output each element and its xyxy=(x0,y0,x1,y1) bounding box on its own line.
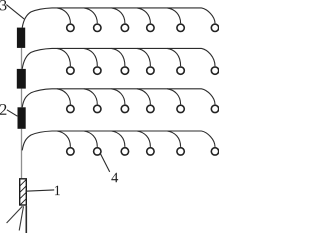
lamp bulb row3-4 xyxy=(147,105,154,112)
lamp bulb row3-2 xyxy=(94,105,101,112)
lamp bulb row1-5 xyxy=(177,24,184,31)
socket block (bottom, pointed to by label 2) xyxy=(18,107,26,129)
lamp bulb row1-3 xyxy=(121,24,128,31)
plug hatch stroke a xyxy=(20,180,26,186)
lamp drop wire row1-4 xyxy=(137,8,151,23)
lamp bulb row1-4 xyxy=(147,24,154,31)
label 1 xyxy=(55,186,60,195)
trunk wire segment between socket 3 and plug body xyxy=(21,129,23,178)
lamp bulb row1-1 xyxy=(67,24,74,31)
lamp drop wire row3-1 xyxy=(57,89,71,105)
lamp drop wire row1-1 xyxy=(57,8,71,23)
branch wire 1 (rises from trunk, runs horizontal) xyxy=(22,8,201,28)
lamp bulb row3-5 xyxy=(177,105,184,112)
end lamp bulb row4 xyxy=(211,148,218,155)
lamp drop wire row2-5 xyxy=(167,48,181,66)
plug body (hatched, pointed to by label 1) xyxy=(20,179,27,205)
lamp drop wire row2-1 xyxy=(57,48,71,66)
lamp drop wire row1-2 xyxy=(84,8,98,23)
lamp bulb row1-2 xyxy=(94,24,101,31)
lamp bulb row2-1 xyxy=(67,67,74,74)
trunk wire segment between socket 2 and socket 3 xyxy=(21,89,23,108)
leader line for label 3 xyxy=(6,5,24,19)
branch end drop wire row3 xyxy=(202,89,216,105)
lamp bulb row2-3 xyxy=(121,67,128,74)
label 4 xyxy=(111,173,118,183)
lamp drop wire row4-4 xyxy=(137,131,151,147)
lamp drop wire row3-2 xyxy=(84,89,98,105)
lamp drop wire row2-4 xyxy=(137,48,151,66)
socket block (top, pointed to by label 3) xyxy=(17,28,25,48)
end lamp bulb row3 xyxy=(211,105,218,112)
lamp bulb row2-5 xyxy=(177,67,184,74)
lamp bulb row4-1 xyxy=(67,148,74,155)
lamp bulb row4-3 xyxy=(121,148,128,155)
branch wire 4 (rises from trunk, runs horizontal) xyxy=(22,131,201,150)
plug hatch stroke d xyxy=(20,199,26,205)
socket block (middle) xyxy=(17,69,26,89)
lamp drop wire row3-4 xyxy=(137,89,151,105)
branch end drop wire row1 xyxy=(202,8,216,23)
lamp bulb row4-2 xyxy=(94,148,101,155)
lamp drop wire row3-3 xyxy=(111,89,125,105)
lamp drop wire row1-3 xyxy=(111,8,125,23)
lamp drop wire row4-3 xyxy=(111,131,125,147)
lamp drop wire row2-3 xyxy=(111,48,125,66)
plug hatch stroke b xyxy=(20,186,26,192)
plug hatch stroke c xyxy=(20,192,26,198)
lamp drop wire row4-2 xyxy=(84,131,98,147)
cord lead splayed left xyxy=(7,206,23,223)
leader line for label 1 xyxy=(26,190,55,191)
label 2 xyxy=(0,104,6,115)
lamp drop wire row4-5 xyxy=(167,131,181,147)
trunk wire segment between socket 1 and socket 2 xyxy=(21,48,23,69)
lamp bulb row2-2 xyxy=(94,67,101,74)
cord lead splayed near-vertical xyxy=(19,206,23,230)
branch wire 3 (rises from trunk, runs horizontal) xyxy=(22,89,201,108)
lamp drop wire row1-5 xyxy=(167,8,181,23)
leader line for label 2 xyxy=(7,110,18,116)
lamp bulb row2-4 xyxy=(147,67,154,74)
branch wire 2 (rises from trunk, runs horizontal) xyxy=(22,48,201,69)
lamp bulb row4-4 xyxy=(147,148,154,155)
leader line for label 4 xyxy=(100,153,110,172)
branch end drop wire row4 xyxy=(202,131,216,147)
lamp drop wire row2-2 xyxy=(84,48,98,66)
lamp drop wire row4-1 xyxy=(57,131,71,147)
end lamp bulb row2 xyxy=(211,67,218,74)
lamp bulb row3-3 xyxy=(121,105,128,112)
branch end drop wire row2 xyxy=(202,48,216,66)
end lamp bulb row1 xyxy=(211,24,218,31)
label 3 xyxy=(0,0,6,10)
lamp bulb row3-1 xyxy=(67,105,74,112)
cord below plug (straight) xyxy=(25,206,27,233)
lamp drop wire row3-5 xyxy=(167,89,181,105)
lamp bulb row4-5 xyxy=(177,148,184,155)
